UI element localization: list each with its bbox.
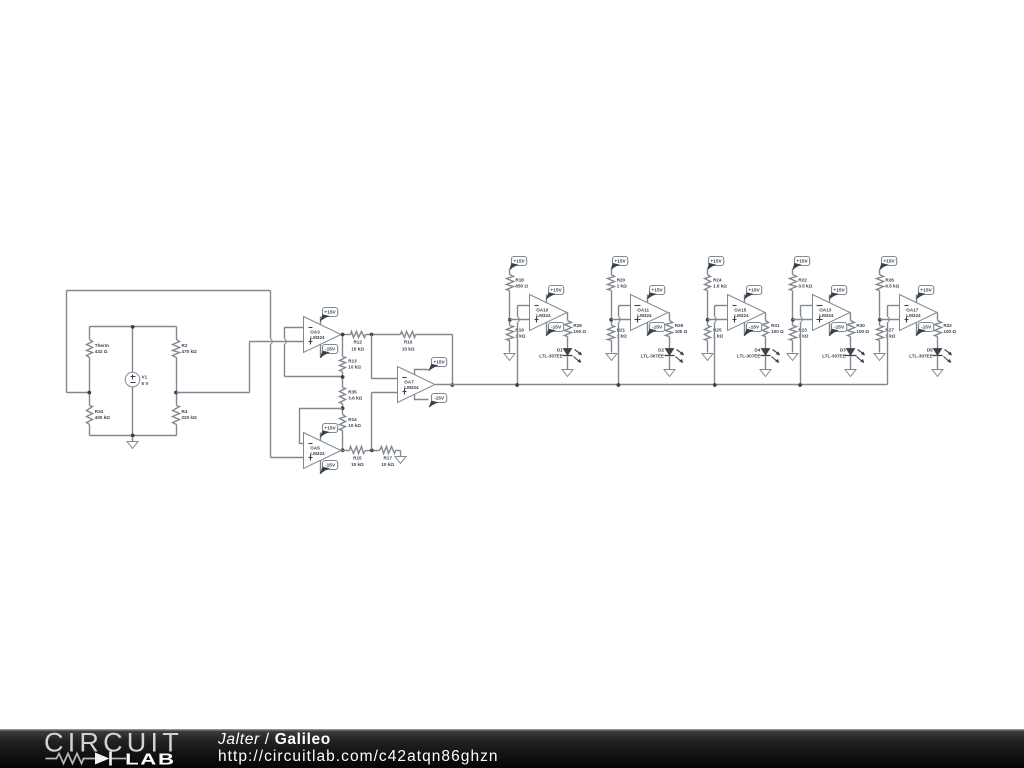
svg-text:+15V: +15V — [614, 259, 626, 265]
svg-text:6.5 kΩ: 6.5 kΩ — [885, 284, 899, 289]
svg-text:OA13: OA13 — [819, 307, 831, 312]
svg-text:OA11: OA11 — [637, 307, 649, 312]
svg-text:+15V: +15V — [550, 288, 562, 294]
svg-text:R22: R22 — [798, 278, 807, 283]
svg-text:100 Ω: 100 Ω — [771, 329, 784, 334]
svg-text:D5: D5 — [927, 348, 933, 353]
svg-text:LAB: LAB — [125, 751, 176, 768]
svg-text:OA17: OA17 — [906, 307, 918, 312]
svg-text:LM324: LM324 — [906, 313, 921, 318]
svg-text:R27: R27 — [885, 328, 894, 333]
svg-text:OA7: OA7 — [404, 379, 414, 384]
svg-text:R35: R35 — [348, 390, 357, 395]
svg-text:R4: R4 — [182, 409, 188, 414]
svg-text:3.5 kΩ: 3.5 kΩ — [798, 284, 812, 289]
svg-text:V1: V1 — [142, 374, 148, 379]
svg-text:R31: R31 — [771, 323, 780, 328]
svg-text:OA5: OA5 — [310, 445, 320, 450]
svg-text:10 kΩ: 10 kΩ — [381, 462, 394, 467]
svg-text:220 kΩ: 220 kΩ — [182, 415, 197, 420]
svg-text:D1: D1 — [557, 348, 563, 353]
svg-text:5 V: 5 V — [142, 381, 150, 386]
svg-text:+15V: +15V — [651, 288, 663, 294]
svg-text:LM324: LM324 — [404, 385, 419, 390]
svg-text:LTL-307EE: LTL-307EE — [909, 354, 932, 359]
svg-text:D4: D4 — [755, 348, 761, 353]
svg-text:LM324: LM324 — [637, 313, 652, 318]
svg-text:R12: R12 — [353, 340, 362, 345]
svg-text:1.6 kΩ: 1.6 kΩ — [713, 284, 727, 289]
svg-text:+15V: +15V — [833, 288, 845, 294]
svg-text:432 Ω: 432 Ω — [95, 349, 108, 354]
svg-text:R19: R19 — [515, 328, 524, 333]
svg-text:100 Ω: 100 Ω — [573, 329, 586, 334]
svg-text:LM324: LM324 — [819, 313, 834, 318]
svg-text:D2: D2 — [658, 348, 664, 353]
svg-text:10 kΩ: 10 kΩ — [351, 346, 364, 351]
svg-text:R29: R29 — [675, 323, 684, 328]
svg-text:R17: R17 — [383, 455, 392, 460]
svg-text:LM324: LM324 — [310, 335, 325, 340]
svg-text:10 kΩ: 10 kΩ — [348, 364, 361, 369]
svg-text:R26: R26 — [885, 278, 894, 283]
svg-text:3.6 kΩ: 3.6 kΩ — [348, 396, 362, 401]
svg-text:+15V: +15V — [883, 259, 895, 265]
svg-text:Therm: Therm — [95, 343, 109, 348]
svg-text:10 kΩ: 10 kΩ — [402, 346, 415, 351]
svg-text:R23: R23 — [798, 328, 807, 333]
svg-text:OA15: OA15 — [734, 307, 746, 312]
svg-text:+15V: +15V — [513, 259, 525, 265]
svg-text:LTL-307EE: LTL-307EE — [737, 354, 760, 359]
svg-text:OA3: OA3 — [310, 329, 320, 334]
svg-text:R14: R14 — [348, 417, 357, 422]
svg-text:D3: D3 — [840, 348, 846, 353]
svg-text:400 kΩ: 400 kΩ — [95, 415, 110, 420]
svg-text:+15V: +15V — [920, 288, 932, 294]
svg-text:LM324: LM324 — [310, 451, 325, 456]
svg-text:+15V: +15V — [324, 310, 336, 316]
svg-text:LTL-307EE: LTL-307EE — [822, 354, 845, 359]
svg-text:R34: R34 — [95, 409, 104, 414]
svg-text:R20: R20 — [617, 278, 626, 283]
svg-text:+15V: +15V — [796, 259, 808, 265]
svg-text:R15: R15 — [353, 455, 362, 460]
svg-text:10 kΩ: 10 kΩ — [348, 423, 361, 428]
svg-text:1 kΩ: 1 kΩ — [617, 284, 627, 289]
svg-text:10 kΩ: 10 kΩ — [351, 462, 364, 467]
svg-text:100 Ω: 100 Ω — [675, 329, 688, 334]
svg-text:-15V: -15V — [434, 396, 445, 402]
svg-text:100 Ω: 100 Ω — [943, 329, 956, 334]
svg-text:R32: R32 — [943, 323, 952, 328]
svg-text:LM324: LM324 — [734, 313, 749, 318]
svg-text:LTL-307EE: LTL-307EE — [641, 354, 664, 359]
svg-text:R2: R2 — [182, 343, 188, 348]
svg-text:R24: R24 — [713, 278, 722, 283]
svg-text:R16: R16 — [404, 340, 413, 345]
svg-text:OA10: OA10 — [536, 307, 548, 312]
svg-text:R18: R18 — [515, 278, 524, 283]
svg-text:LM324: LM324 — [536, 313, 551, 318]
svg-text:+15V: +15V — [324, 426, 336, 432]
svg-text:R28: R28 — [573, 323, 582, 328]
svg-text:100 Ω: 100 Ω — [856, 329, 869, 334]
svg-text:LTL-307EE: LTL-307EE — [539, 354, 562, 359]
svg-text:+15V: +15V — [748, 288, 760, 294]
svg-text:R30: R30 — [856, 323, 865, 328]
svg-text:650 Ω: 650 Ω — [515, 284, 528, 289]
svg-text:R13: R13 — [348, 358, 357, 363]
svg-text:470 kΩ: 470 kΩ — [182, 349, 197, 354]
